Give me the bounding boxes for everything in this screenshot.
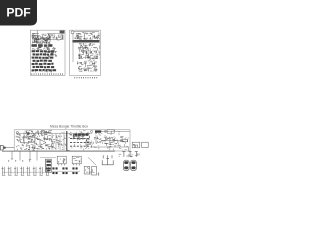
relay RL2 coil marks	[73, 157, 80, 163]
stage two cluster	[36, 136, 51, 140]
resistor R30	[122, 139, 127, 142]
LED indicator bar	[95, 130, 101, 132]
wire top row right	[40, 156, 56, 158]
component value table row 3 page1	[32, 57, 34, 59]
electrolytic capacitor C20 bands	[124, 161, 128, 164]
input jack circle page2	[71, 31, 74, 34]
component value table row 4 page1	[33, 60, 36, 62]
resistor ladder row 4	[70, 145, 89, 147]
solder pads row	[8, 160, 30, 162]
resistor ladder row 3	[70, 141, 89, 143]
supply rail bar page2	[72, 40, 99, 43]
potentiometer VR4	[20, 167, 24, 176]
stomp switch SW2 contacts	[62, 167, 64, 169]
stomp switch SW3 contacts	[72, 167, 74, 169]
output stage wiring page2	[77, 60, 97, 72]
component value table row 5 page1	[32, 63, 35, 65]
terminal strip left	[2, 171, 52, 173]
footswitch PCB pads	[46, 160, 50, 162]
switch row baseline	[52, 170, 80, 172]
wire input bus	[16, 132, 92, 134]
wire top bus page2	[74, 31, 99, 33]
footswitch PCB outline	[46, 159, 52, 172]
relay RL2 pins	[74, 164, 80, 166]
DC jack pins	[122, 152, 137, 157]
wire mid columns	[52, 133, 64, 150]
regulator parts	[119, 153, 139, 157]
first gain stage cluster	[26, 131, 52, 136]
electrolytic capacitor C21 bands	[131, 161, 135, 164]
potentiometer VR7	[39, 167, 43, 176]
wire left rail page2	[72, 33, 74, 62]
schematic page 2 border	[70, 30, 101, 75]
supply rail vertical bar	[66, 131, 68, 151]
svg-text:Mesa Boogie Throttle Box: Mesa Boogie Throttle Box	[50, 125, 88, 129]
footswitch PCB pads3	[46, 168, 50, 170]
component value table row 7 page1	[32, 69, 35, 71]
footswitch PCB pads2	[46, 164, 50, 166]
mounting pad	[98, 172, 100, 175]
wire output run	[103, 140, 123, 142]
stomp switch SW1 contacts	[52, 167, 54, 169]
wire bottom run	[90, 147, 129, 151]
electrolytic capacitor C21 body	[131, 160, 137, 170]
potentiometer VR6	[33, 167, 37, 176]
battery center post	[106, 159, 109, 165]
potentiometer VR1	[2, 167, 6, 176]
wire drops first stage	[20, 133, 28, 141]
connector pin row page2	[75, 77, 97, 78]
output stage wiring page1	[45, 51, 57, 57]
bias network page1	[32, 69, 52, 72]
power connector CN1	[132, 142, 140, 148]
jack internals	[86, 168, 95, 175]
input filter wiring page2	[75, 33, 100, 40]
footswitch PCB parts	[47, 170, 51, 171]
relay RL1 pins	[59, 164, 65, 166]
potentiometer VR5	[27, 167, 31, 176]
CN1 pins	[133, 144, 138, 147]
electrolytic capacitor C20 body	[123, 160, 129, 170]
transistor Q1 circle	[91, 130, 93, 132]
wire slanted to jack	[88, 157, 96, 165]
mid column caps	[51, 135, 66, 149]
input jack J1 body	[0, 145, 3, 150]
left input network	[16, 134, 24, 150]
wire top right run	[101, 130, 129, 132]
coupling cap bank	[75, 134, 78, 136]
power connector CN2	[142, 142, 149, 147]
bus drop terminals	[11, 158, 31, 161]
component value table row 2 page1	[33, 53, 36, 55]
relay RL2 outline	[72, 156, 81, 164]
input jack J1 circle	[16, 131, 18, 133]
bus drop wires	[12, 151, 37, 160]
output buffer parts	[104, 137, 126, 147]
op-amp U1A triangle	[40, 140, 46, 146]
battery holder bracket	[102, 160, 113, 165]
tone control cluster	[73, 133, 90, 140]
tone stack wiring page1	[51, 34, 64, 40]
sheet interior wiring texture	[17, 131, 129, 151]
resistor ladder row 1	[70, 134, 89, 136]
schematic page 1 border	[30, 30, 65, 75]
wire jack to sheet	[6, 147, 15, 149]
preamp stage wiring page1	[32, 34, 51, 44]
ground bus wire	[2, 150, 115, 152]
component value table row 6 page1	[33, 66, 35, 68]
power rail blocks page1	[32, 44, 37, 47]
main schematic border	[14, 130, 130, 151]
clipping block parts	[24, 137, 35, 142]
PDF file-type badge	[0, 0, 37, 26]
potentiometer VR8	[45, 167, 49, 176]
gain stage wiring page2	[78, 43, 100, 59]
amp block outline page1	[50, 33, 62, 40]
title block page1	[60, 31, 65, 34]
relay K1 outline	[107, 130, 114, 134]
output jack J2 outline	[84, 166, 89, 174]
feedback network U1A	[32, 144, 50, 150]
bias string	[16, 146, 30, 150]
connector pin row page1	[32, 73, 63, 74]
relay RL1 outline	[57, 156, 66, 164]
output jack J3 outline	[92, 166, 97, 175]
jack tip contact	[4, 147, 6, 149]
wire vertical feed page1	[36, 30, 38, 38]
resistor ladder row 2	[70, 138, 89, 140]
clipping diode block D1 D2	[24, 136, 36, 142]
battery clip ticks	[103, 155, 112, 158]
transistor Q2 circle	[105, 130, 107, 132]
op-amp U2B triangle	[86, 141, 92, 146]
op-amp U2A triangle	[96, 138, 103, 144]
component value table row 1 page1	[32, 50, 35, 52]
driver stage wiring page1	[32, 47, 56, 50]
relay RL1 coil marks	[58, 158, 65, 163]
potentiometer VR3	[14, 167, 18, 176]
potentiometer VR2	[8, 167, 12, 176]
svg-text:PDF: PDF	[6, 6, 30, 20]
